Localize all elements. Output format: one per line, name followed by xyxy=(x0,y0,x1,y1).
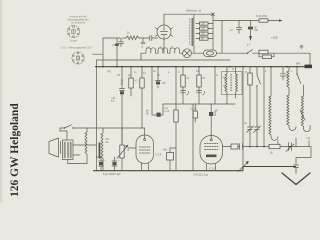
resistor x131 xyxy=(130,67,132,96)
tube socket view B xyxy=(72,52,84,64)
svg-text:8.0: 8.0 xyxy=(111,100,115,103)
svg-text:100: 100 xyxy=(201,33,206,36)
svg-text:Wellensch. 1a: Wellensch. 1a xyxy=(186,10,202,13)
cap on return line xyxy=(240,144,243,150)
junction dots on bus xyxy=(102,66,298,68)
tube U2 electrodes xyxy=(205,144,219,150)
scatter labels under bus xyxy=(107,68,293,77)
choke core bar x99.5 xyxy=(99,143,101,159)
voltage selector boxes xyxy=(259,50,268,54)
electrolytic cap 1 xyxy=(97,157,104,171)
hum pot on x122 xyxy=(121,128,123,171)
tap resistor 1 xyxy=(200,22,209,25)
svg-text:C: C xyxy=(178,71,180,74)
oscillator tube circle xyxy=(156,25,173,39)
heater return wire xyxy=(228,147,311,162)
svg-text:+: + xyxy=(105,160,107,163)
capacitor 47 at x239 xyxy=(237,21,242,34)
switch column wire xyxy=(212,14,214,49)
svg-text:2: 2 xyxy=(216,74,218,77)
svg-text:L43: L43 xyxy=(158,47,163,50)
svg-text:Sockel: Sockel xyxy=(70,40,78,43)
fuse xyxy=(204,50,217,56)
tube socket view A xyxy=(67,25,79,37)
main bus xyxy=(95,66,312,68)
pellet cap on row xyxy=(157,113,161,117)
svg-text:GL: GL xyxy=(106,141,110,144)
resistor x176 xyxy=(175,67,177,171)
svg-text:0k: 0k xyxy=(121,83,124,86)
electrolytic with arrow xyxy=(289,143,292,151)
svg-text:126 GW Helgoland: 126 GW Helgoland xyxy=(9,103,21,197)
svg-text:1k: 1k xyxy=(187,77,190,80)
heater coil b xyxy=(158,48,168,53)
primary leads to right xyxy=(73,145,97,155)
aerial cross mark xyxy=(300,45,304,50)
svg-text:1k: 1k xyxy=(127,149,130,152)
bypass cap x183 xyxy=(181,91,186,93)
svg-text:U-VCL11 4 µµ: U-VCL11 4 µµ xyxy=(193,174,209,177)
secondary rail y60 xyxy=(97,59,231,61)
IFT frame xyxy=(222,72,243,95)
svg-text:470: 470 xyxy=(107,71,112,74)
anode feed drop x215 xyxy=(214,67,216,104)
tube U1 envelope xyxy=(136,135,154,164)
svg-text:im Sockel B: im Sockel B xyxy=(71,21,85,25)
svg-text:4.7: 4.7 xyxy=(135,80,139,83)
pellet cap x158 xyxy=(156,67,161,88)
tap resistor 2 xyxy=(200,27,209,30)
capacitor pellet on x117 xyxy=(116,38,118,67)
svg-text:a 7: a 7 xyxy=(247,44,251,47)
heater coil c xyxy=(170,48,180,53)
grid resistor box lower xyxy=(170,148,176,171)
electrolytic on x122 xyxy=(120,89,125,91)
svg-text:150: 150 xyxy=(201,23,206,26)
svg-text:2: 2 xyxy=(265,70,267,73)
tube U1 grid lead xyxy=(122,128,145,148)
coupling cap box x195 xyxy=(193,111,198,118)
trimmer cap x250 xyxy=(248,125,253,134)
plug pins xyxy=(294,161,299,174)
wire grid line y38 xyxy=(103,37,158,39)
svg-text:C9: C9 xyxy=(117,74,121,77)
heater coil a xyxy=(146,48,156,53)
wire corner down at x103 xyxy=(102,38,104,67)
chassis arrow xyxy=(249,36,252,41)
svg-text:L: L xyxy=(291,70,293,73)
tube U1 electrodes xyxy=(140,147,151,153)
svg-text:1k: 1k xyxy=(127,32,130,35)
IFT core xyxy=(231,74,232,91)
dial lamp xyxy=(183,49,192,58)
resistor on return line xyxy=(269,144,280,148)
svg-text:0.305: 0.305 xyxy=(213,110,216,117)
svg-text:5k: 5k xyxy=(270,152,273,155)
svg-text:+: + xyxy=(118,160,120,163)
pellet cap on anode line xyxy=(209,112,213,116)
choke 3 xyxy=(301,85,310,132)
svg-text:+125: +125 xyxy=(271,36,278,40)
svg-text:5: 5 xyxy=(142,46,144,49)
arrowhead HT xyxy=(279,19,283,21)
wire heater row xyxy=(141,53,310,66)
resistor x250 xyxy=(249,67,251,147)
trim cap below line xyxy=(141,38,145,44)
AF line y104 xyxy=(163,103,235,105)
output transformer xyxy=(63,140,74,160)
left rail x243 xyxy=(242,67,244,167)
cap 47 x283 xyxy=(281,67,286,80)
dropper resistor x103 zigzag xyxy=(101,128,103,171)
speaker cone xyxy=(49,138,61,157)
transformer top lead xyxy=(60,128,67,140)
tube U1 cathode leads xyxy=(142,164,149,171)
switch x257 xyxy=(257,67,261,147)
resistor R20 on HT line xyxy=(259,19,268,22)
svg-text:CY1 u. Fassungsseite CL4: CY1 u. Fassungsseite CL4 xyxy=(61,45,92,49)
chassis bus bottom xyxy=(93,167,296,171)
x193 drop to bottom xyxy=(192,104,194,171)
svg-text:kΩ: kΩ xyxy=(128,74,131,77)
wire osc tube bottom xyxy=(163,39,165,53)
switch x303 mid xyxy=(300,110,305,120)
wire branch to fuse column xyxy=(221,21,223,54)
svg-text:a2: a2 xyxy=(153,70,156,73)
tube U2 side lead xyxy=(223,146,229,148)
oscillator coil winding xyxy=(192,14,195,46)
choke 2 lower xyxy=(287,90,296,130)
feedback resistor x87 zigzag xyxy=(85,128,87,164)
IFT secondary winding xyxy=(236,67,238,98)
svg-text:100: 100 xyxy=(254,29,259,32)
tube U2 envelope xyxy=(200,136,223,165)
tap values xyxy=(201,23,206,41)
svg-text:50k: 50k xyxy=(163,149,168,152)
svg-text:0.1: 0.1 xyxy=(143,72,147,75)
AF branch x122 xyxy=(121,67,123,155)
IFT primary winding xyxy=(225,67,227,104)
svg-text:µ: µ xyxy=(168,71,170,74)
svg-text:47: 47 xyxy=(230,29,233,32)
left border wire xyxy=(96,60,98,171)
electrolytic cap 2 xyxy=(112,157,117,171)
plain drop x264 xyxy=(263,67,265,147)
IFT trimmer marks xyxy=(224,77,227,90)
choke 2 upper xyxy=(287,67,289,90)
svg-text:C13: C13 xyxy=(156,153,162,157)
svg-text:99: 99 xyxy=(146,113,149,116)
tap resistor 4 xyxy=(200,37,209,40)
svg-text:C12: C12 xyxy=(209,167,215,171)
svg-text:a2: a2 xyxy=(244,122,247,125)
stub corner upper-left xyxy=(93,53,104,55)
svg-text:+U: +U xyxy=(306,136,310,140)
svg-text:50: 50 xyxy=(203,77,206,80)
capacitor at x250 xyxy=(248,27,253,30)
tube U2 cathode leads xyxy=(207,164,216,171)
wire top horizontal from osc tube to switch column xyxy=(164,14,213,25)
bypass cap x199 xyxy=(197,91,202,93)
wire HT line with arrow xyxy=(213,20,279,22)
svg-text:Cw 72: Cw 72 xyxy=(190,108,197,111)
svg-text:0.10: 0.10 xyxy=(165,110,170,113)
trimmer cap x257 xyxy=(255,125,260,134)
resistor x199 xyxy=(198,67,200,104)
series capacitor on line xyxy=(150,36,152,41)
svg-text:(P): (P) xyxy=(296,62,300,66)
tone switch xyxy=(60,125,122,128)
svg-text:4n: 4n xyxy=(134,71,137,74)
svg-text:8 µF 450/15 4µF: 8 µF 450/15 4µF xyxy=(103,173,121,176)
crossing X at top xyxy=(212,13,215,16)
svg-text:+50: +50 xyxy=(162,82,167,85)
transformer bottom lead xyxy=(68,160,87,164)
svg-text:R 20 4700: R 20 4700 xyxy=(256,15,268,18)
tap resistor 3 xyxy=(200,32,209,35)
svg-text:50: 50 xyxy=(157,74,160,77)
resistor x183 xyxy=(182,67,184,104)
resistor R1 zigzag xyxy=(126,36,139,40)
svg-text:R: R xyxy=(245,71,247,74)
wire drop to smoothing cap xyxy=(250,21,252,27)
capacitor C17 below line xyxy=(119,38,124,47)
detector row y115 xyxy=(152,67,163,115)
choke 1 xyxy=(269,67,278,141)
svg-text:120: 120 xyxy=(201,28,206,31)
plug chevron xyxy=(282,173,310,185)
mains adjust arrow xyxy=(238,162,248,172)
coil bottom wire xyxy=(193,46,195,53)
junction dots return xyxy=(249,146,291,148)
socket note text A xyxy=(67,15,88,25)
mains terminal block xyxy=(305,65,313,69)
series box near tube2 xyxy=(231,144,238,149)
mains switch contact xyxy=(247,50,253,54)
svg-text:L42: L42 xyxy=(146,47,151,50)
coil core line xyxy=(188,19,190,46)
svg-text:f1: f1 xyxy=(232,68,235,71)
switch x297 upper xyxy=(297,67,301,84)
resistor x142 xyxy=(141,67,143,128)
